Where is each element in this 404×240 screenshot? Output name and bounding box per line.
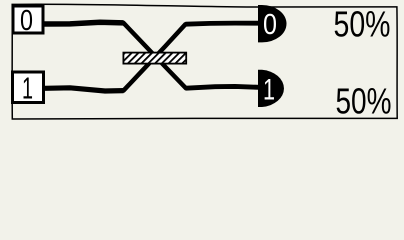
wire: to detector 1 bbox=[186, 86, 259, 88]
detector 1 (bottom, D-shape) bbox=[258, 70, 284, 107]
detector 0 (top, D-shape) bbox=[258, 5, 287, 42]
wire: to detector 0 bbox=[186, 23, 260, 24]
svg-text:50%: 50% bbox=[334, 3, 391, 44]
diagonal: input 1 to output 0 bbox=[124, 24, 186, 90]
wire: input 0 horizontal bbox=[44, 22, 124, 24]
svg-text:0: 0 bbox=[263, 9, 277, 41]
diagonal: input 0 to output 1 bbox=[124, 23, 187, 88]
input box 1 bbox=[13, 71, 44, 105]
input box 0 bbox=[13, 5, 43, 37]
svg-text:50%: 50% bbox=[336, 81, 392, 122]
svg-text:1: 1 bbox=[22, 71, 33, 105]
beam splitter (hatched rectangle) bbox=[123, 53, 186, 64]
frame (axes border) bbox=[12, 4, 397, 119]
wire: input 1 horizontal bbox=[45, 88, 124, 91]
svg-text:0: 0 bbox=[20, 5, 33, 37]
svg-text:1: 1 bbox=[263, 73, 275, 106]
